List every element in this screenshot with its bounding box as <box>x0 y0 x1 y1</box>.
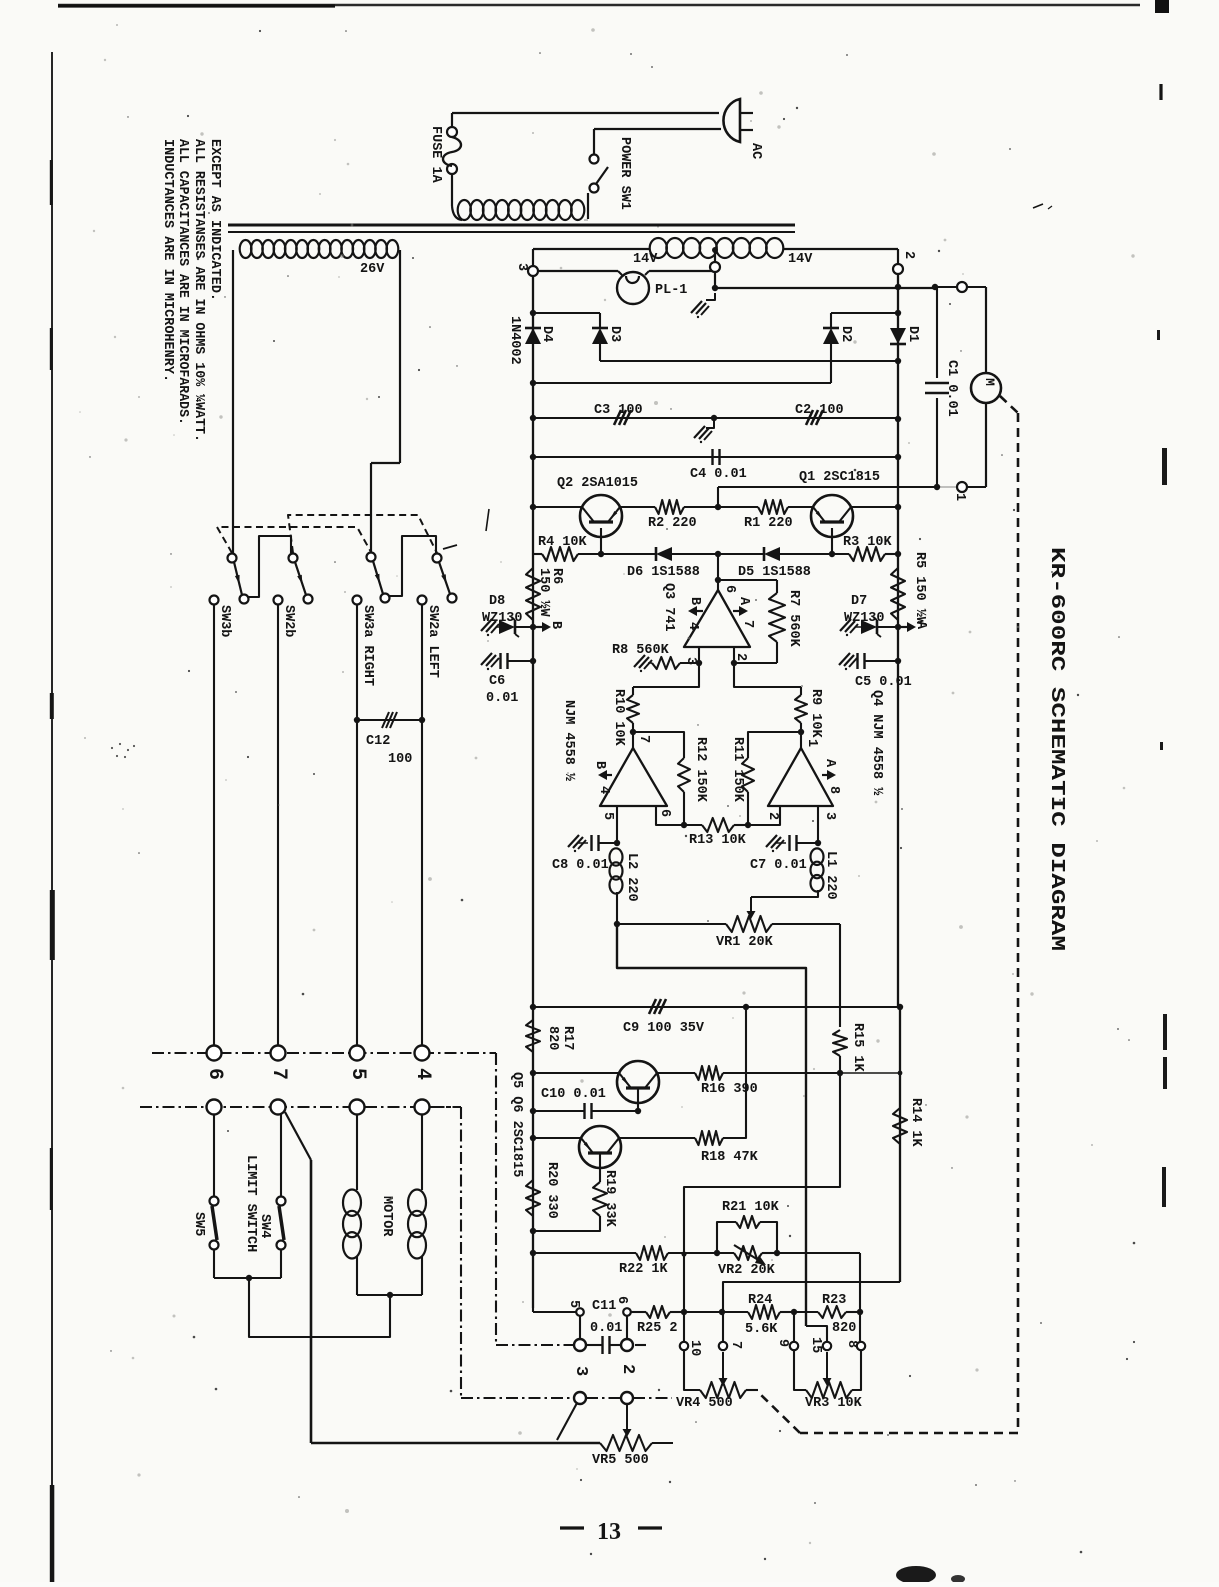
svg-text:2: 2 <box>765 812 780 820</box>
svg-text:L2 220: L2 220 <box>624 853 639 902</box>
svg-text:5: 5 <box>566 1300 581 1308</box>
svg-text:5: 5 <box>346 1068 369 1080</box>
svg-text:R11 150K: R11 150K <box>730 737 745 803</box>
svg-text:FUSE 1A: FUSE 1A <box>428 126 443 184</box>
svg-text:SW4: SW4 <box>257 1214 272 1238</box>
svg-text:R12 150K: R12 150K <box>693 737 708 803</box>
svg-text:R21 10K: R21 10K <box>722 1200 780 1215</box>
svg-text:0.01: 0.01 <box>486 691 518 706</box>
svg-text:A: A <box>913 621 928 630</box>
svg-text:7: 7 <box>740 620 755 628</box>
svg-text:PL-1: PL-1 <box>655 283 687 298</box>
svg-text:LIMIT SWITCH: LIMIT SWITCH <box>243 1155 258 1252</box>
svg-text:2: 2 <box>618 1364 637 1374</box>
svg-text:C8 0.01: C8 0.01 <box>552 858 609 873</box>
svg-text:R24: R24 <box>748 1293 772 1308</box>
svg-text:R15 1K: R15 1K <box>850 1023 865 1073</box>
svg-text:C11: C11 <box>592 1299 616 1314</box>
svg-text:L1 220: L1 220 <box>823 851 838 900</box>
svg-text:C5 0.01: C5 0.01 <box>855 675 912 690</box>
svg-text:SW5: SW5 <box>191 1212 206 1236</box>
svg-text:3: 3 <box>514 263 529 271</box>
svg-text:C4 0.01: C4 0.01 <box>690 467 747 482</box>
svg-text:VR4 500: VR4 500 <box>676 1396 733 1411</box>
svg-text:15: 15 <box>808 1337 823 1353</box>
svg-text:WZ130: WZ130 <box>482 611 523 626</box>
svg-text:WZ130: WZ130 <box>844 611 885 626</box>
svg-text:4: 4 <box>411 1068 434 1080</box>
svg-text:ALL CAPACITANCES ARE IN MICROF: ALL CAPACITANCES ARE IN MICROFARADS. <box>175 139 190 425</box>
svg-text:8: 8 <box>826 786 841 794</box>
svg-text:SW2a LEFT: SW2a LEFT <box>425 605 440 678</box>
svg-text:D5 1S1588: D5 1S1588 <box>738 565 811 580</box>
svg-text:R22 1K: R22 1K <box>619 1262 669 1277</box>
svg-text:AC: AC <box>748 143 763 159</box>
svg-text:VR5 500: VR5 500 <box>592 1453 649 1468</box>
svg-text:R13 10K: R13 10K <box>689 833 747 848</box>
svg-text:C7 0.01: C7 0.01 <box>750 858 807 873</box>
svg-text:2: 2 <box>733 653 748 661</box>
svg-text:M: M <box>982 378 997 386</box>
svg-text:R23: R23 <box>822 1293 846 1308</box>
svg-text:Q3 741: Q3 741 <box>661 583 676 632</box>
svg-text:C6: C6 <box>489 674 505 689</box>
svg-text:B: B <box>548 621 563 629</box>
svg-text:INDUCTANCES ARE IN MICROHENRY.: INDUCTANCES ARE IN MICROHENRY. <box>160 139 175 382</box>
svg-text:820: 820 <box>545 1026 560 1050</box>
svg-text:5.6K: 5.6K <box>745 1322 778 1337</box>
svg-text:R4 10K: R4 10K <box>538 535 588 550</box>
svg-text:1N4002: 1N4002 <box>507 316 522 365</box>
svg-text:100: 100 <box>388 752 412 767</box>
svg-text:820: 820 <box>832 1321 856 1336</box>
svg-text:R14 1K: R14 1K <box>908 1098 923 1148</box>
svg-text:R5 150 ½W: R5 150 ½W <box>912 552 927 626</box>
svg-text:C2 100: C2 100 <box>795 403 844 418</box>
svg-text:C3 100: C3 100 <box>594 403 643 418</box>
svg-text:KR-600RC SCHEMATIC DIAGRAM: KR-600RC SCHEMATIC DIAGRAM <box>1046 547 1068 951</box>
svg-text:C10 0.01: C10 0.01 <box>541 1087 606 1102</box>
svg-text:150 ½W: 150 ½W <box>536 568 551 618</box>
svg-text:D2: D2 <box>838 326 853 342</box>
svg-text:R19 33K: R19 33K <box>602 1170 617 1228</box>
svg-text:R10 10K: R10 10K <box>611 689 626 747</box>
svg-text:5: 5 <box>600 812 615 820</box>
svg-text:R8 560K: R8 560K <box>612 643 670 658</box>
svg-text:C1 0.01: C1 0.01 <box>944 360 959 417</box>
svg-text:1: 1 <box>952 493 967 501</box>
svg-text:SW3a RIGHT: SW3a RIGHT <box>360 605 375 686</box>
svg-text:POWER SW1: POWER SW1 <box>617 137 632 210</box>
svg-text:EXCEPT AS INDICATED.: EXCEPT AS INDICATED. <box>207 139 222 301</box>
svg-text:3: 3 <box>571 1366 590 1376</box>
svg-text:9: 9 <box>775 1339 790 1347</box>
svg-text:D1: D1 <box>905 326 920 342</box>
svg-text:B: B <box>687 597 702 605</box>
svg-text:13: 13 <box>597 1519 621 1545</box>
svg-text:D4: D4 <box>539 326 554 342</box>
svg-text:6: 6 <box>722 585 737 593</box>
svg-text:A: A <box>822 759 837 768</box>
svg-text:R7 560K: R7 560K <box>786 590 801 648</box>
svg-text:8: 8 <box>844 1340 859 1348</box>
svg-text:4: 4 <box>685 622 700 630</box>
svg-text:VR3 10K: VR3 10K <box>805 1396 863 1411</box>
svg-text:3: 3 <box>822 812 837 820</box>
svg-text:6: 6 <box>657 809 672 817</box>
svg-text:C12: C12 <box>366 734 390 749</box>
svg-text:1: 1 <box>804 739 819 747</box>
svg-text:Q1 2SC1815: Q1 2SC1815 <box>799 470 880 485</box>
svg-text:14V: 14V <box>633 252 658 267</box>
svg-text:7: 7 <box>728 1341 743 1349</box>
svg-text:D6 1S1588: D6 1S1588 <box>627 565 700 580</box>
svg-text:D8: D8 <box>489 594 505 609</box>
svg-text:ALL RESISTANSES ARE IN OHMS 10: ALL RESISTANSES ARE IN OHMS 10% ¼WATT. <box>191 139 206 442</box>
svg-text:SW3b: SW3b <box>217 605 232 637</box>
svg-text:C9 100 35V: C9 100 35V <box>623 1021 705 1036</box>
svg-text:SW2b: SW2b <box>281 605 296 637</box>
svg-text:0.01: 0.01 <box>590 1321 622 1336</box>
svg-text:MOTOR: MOTOR <box>379 1196 394 1237</box>
svg-text:2: 2 <box>901 251 916 259</box>
svg-text:VR2 20K: VR2 20K <box>718 1263 776 1278</box>
svg-text:VR1 20K: VR1 20K <box>716 935 774 950</box>
svg-text:26V: 26V <box>360 262 385 277</box>
svg-text:D3: D3 <box>607 326 622 342</box>
svg-text:Q2 2SA1015: Q2 2SA1015 <box>557 476 638 491</box>
svg-text:7: 7 <box>636 735 651 743</box>
svg-text:10: 10 <box>687 1340 702 1356</box>
svg-text:4: 4 <box>596 786 611 794</box>
svg-text:R9 10K: R9 10K <box>808 689 823 739</box>
svg-text:6: 6 <box>203 1068 226 1080</box>
svg-text:A: A <box>736 597 751 606</box>
svg-text:7: 7 <box>267 1068 290 1080</box>
svg-text:Q4 NJM 4558 ½: Q4 NJM 4558 ½ <box>869 690 884 795</box>
svg-text:R1 220: R1 220 <box>744 516 793 531</box>
svg-text:R20 330: R20 330 <box>544 1162 559 1219</box>
svg-text:B: B <box>592 761 607 769</box>
svg-text:R16 390: R16 390 <box>701 1082 758 1097</box>
svg-text:R25 2: R25 2 <box>637 1321 678 1336</box>
svg-text:R17: R17 <box>560 1026 575 1050</box>
svg-text:NJM 4558 ½: NJM 4558 ½ <box>561 700 576 781</box>
svg-text:D7: D7 <box>851 594 867 609</box>
svg-text:Q5 Q6 2SC1815: Q5 Q6 2SC1815 <box>509 1072 524 1177</box>
svg-text:R18 47K: R18 47K <box>701 1150 759 1165</box>
svg-text:R3 10K: R3 10K <box>843 535 893 550</box>
svg-text:14V: 14V <box>788 252 813 267</box>
svg-text:R2 220: R2 220 <box>648 516 697 531</box>
